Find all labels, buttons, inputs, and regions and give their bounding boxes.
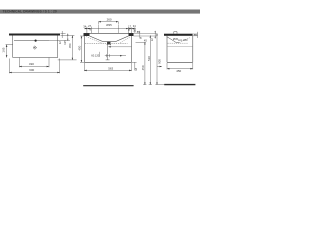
slab thickness dim 8 right	[134, 31, 157, 39]
label min	[178, 38, 188, 42]
bowl right slope	[116, 36, 129, 42]
label 905	[157, 59, 161, 64]
header bar	[0, 10, 200, 14]
label 490	[29, 62, 34, 66]
bowl bottom	[103, 41, 116, 43]
dim line a (12)	[61, 31, 63, 38]
dim line b (135)	[67, 34, 69, 41]
dim line c (450)	[71, 36, 73, 60]
top dim 260 bracket	[98, 22, 118, 33]
hidden slope dashed	[179, 38, 190, 43]
svg-text:450: 450	[176, 69, 181, 73]
label 450 mid-left	[78, 45, 82, 50]
label 34	[83, 25, 86, 29]
extension step line	[58, 59, 77, 61]
label 17	[128, 24, 131, 28]
floor line right	[164, 84, 195, 86]
svg-text:450: 450	[78, 45, 82, 50]
label 165	[1, 47, 5, 52]
slab side thick bar	[164, 34, 193, 36]
label 450	[68, 43, 72, 48]
cabinet right edge	[131, 36, 133, 62]
svg-text:490: 490	[29, 62, 34, 66]
arrows for dims a b c	[67, 34, 73, 60]
cabinet left edge	[83, 36, 85, 62]
arrowhead toward right view	[160, 66, 162, 67]
label diameter 45	[173, 37, 179, 41]
label 135	[63, 40, 67, 45]
drain leader line	[108, 46, 131, 48]
hidden bowl left slope dashed	[86, 37, 102, 44]
drain pipe	[106, 45, 110, 60]
cabinet height dim 450 left	[80, 36, 84, 62]
label 60 120	[91, 53, 99, 57]
label 450 height	[141, 65, 145, 70]
svg-text:600: 600	[29, 68, 34, 72]
label diameter 35	[106, 23, 112, 27]
dimension 600 under plan	[9, 59, 59, 74]
label 18	[134, 67, 138, 71]
dimension 165 left of plan	[6, 45, 13, 58]
label 450 depth	[176, 69, 181, 73]
label 563	[108, 67, 113, 71]
extension from bowl bottom	[136, 41, 147, 43]
slab cut left block	[84, 33, 90, 36]
label 260	[107, 18, 112, 22]
tap hole extension lines	[97, 24, 99, 33]
extension line top	[61, 33, 66, 35]
top-right dims 17 34	[128, 27, 135, 33]
arrow ext to right view	[157, 66, 162, 68]
hidden bottom dashed	[168, 42, 189, 44]
inner back line	[14, 40, 49, 42]
slab cut right block	[129, 33, 134, 36]
label 27	[88, 24, 91, 28]
extension line inner	[49, 40, 70, 42]
label 12	[58, 41, 62, 45]
tap hole collar	[174, 32, 177, 34]
label 520	[147, 56, 151, 61]
cabinet side	[167, 36, 193, 63]
vanity cabinet front	[84, 36, 131, 62]
tap hole dot	[35, 40, 37, 42]
floor tick connector	[143, 84, 146, 86]
drain diamond	[33, 46, 37, 49]
svg-text:260: 260	[107, 18, 112, 22]
svg-text:450: 450	[141, 65, 145, 70]
svg-text:450: 450	[68, 43, 72, 48]
extension line slab bottom	[61, 35, 75, 37]
cabinet side bottom	[167, 61, 193, 63]
tiny label near ext	[144, 39, 147, 43]
height dim line 520	[149, 35, 151, 84]
drain outlet	[107, 42, 111, 46]
svg-text:18: 18	[134, 67, 138, 71]
svg-text:135: 135	[63, 40, 67, 45]
bowl section slope	[167, 37, 179, 43]
right side extension lines of plan	[49, 31, 76, 60]
label 12 rotated	[150, 38, 154, 41]
left edge wall	[12, 36, 14, 58]
drain offset dim 60 120	[105, 54, 126, 57]
long top dim line	[85, 27, 136, 34]
svg-text:TECHNICAL DRAWINGS / S 1 : 20: TECHNICAL DRAWINGS / S 1 : 20	[3, 10, 57, 14]
slab top edge	[84, 32, 134, 34]
height dim line 905	[156, 33, 158, 84]
header title text	[3, 10, 57, 14]
slab edge dim 85 right	[193, 32, 198, 38]
svg-text:563: 563	[108, 67, 113, 71]
cabinet side drawer line	[167, 46, 193, 48]
label 85 rv	[194, 33, 197, 37]
svg-text:Ø35: Ø35	[106, 23, 112, 27]
bowl left slope	[90, 36, 104, 42]
hidden bowl underside dashed	[85, 42, 128, 44]
label 8 small	[140, 36, 142, 40]
right edge wall	[57, 36, 59, 58]
dimension 490 under plan	[19, 58, 49, 68]
svg-text:165: 165	[1, 47, 5, 52]
label 85	[137, 30, 140, 34]
back rail thick bar	[9, 34, 60, 36]
label 34 right	[133, 24, 136, 28]
floor line	[83, 85, 133, 87]
hidden bowl right slope dashed	[120, 37, 131, 44]
height dim line 450	[144, 42, 146, 84]
label 600	[29, 68, 34, 72]
bottom dim 563	[84, 63, 131, 71]
svg-text:520: 520	[147, 56, 151, 61]
cabinet side right edge	[192, 36, 194, 63]
svg-text:905: 905	[157, 59, 161, 64]
micro dim 18 right of cabinet bottom	[132, 62, 137, 70]
depth dim 450	[167, 63, 193, 70]
svg-text:12: 12	[58, 41, 62, 45]
bottom edge	[13, 57, 58, 59]
cabinet side left edge	[166, 36, 168, 63]
drain center dot	[34, 47, 35, 48]
cabinet bottom	[84, 61, 131, 63]
